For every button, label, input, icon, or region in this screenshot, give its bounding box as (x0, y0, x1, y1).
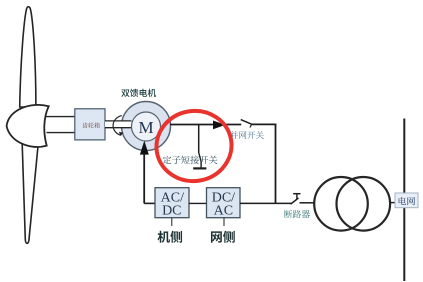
main shaft (hub to gearbox) (46, 117, 75, 133)
machine-side converter AC/DC box (155, 188, 189, 219)
label 断路器 (circuit breaker) (284, 210, 310, 218)
wind turbine lower blade (22, 144, 38, 243)
stator wire (M to grid switch) (170, 124, 241, 126)
generator M inner circle (132, 112, 161, 141)
grid-side converter DC/AC box (207, 188, 241, 219)
svg-text:M: M (138, 118, 153, 137)
stator short-circuit switch bottom bar (193, 167, 206, 169)
rotor wire horizontal to AC/DC (144, 202, 155, 204)
label 并网开关 (230, 131, 264, 139)
label 网侧 (grid side) (211, 231, 235, 243)
svg-text:AC: AC (214, 204, 233, 219)
wire corner drop to converter output node (275, 124, 277, 204)
leader line below DC/AC (223, 218, 225, 226)
generator M outer circle (122, 102, 171, 151)
gearbox box (75, 109, 105, 140)
wind turbine upper blade (20, 7, 36, 107)
wire from grid switch to corner (252, 123, 277, 125)
node: stator junction T (198, 125, 200, 153)
circuit breaker symbol (291, 194, 301, 205)
high-speed shaft (gearbox to generator, over circle) (105, 121, 132, 128)
leader line below AC/DC (171, 218, 173, 226)
wire transformer to grid bus (390, 202, 399, 204)
DC/AC output wire to node (240, 202, 291, 204)
svg-text:DC: DC (162, 204, 181, 219)
stator short-circuit switch blade (199, 153, 201, 169)
power-flow arrow on stator wire (213, 121, 225, 130)
generator letter M (138, 118, 153, 137)
transformer primary winding circle (314, 177, 368, 231)
DC link wire (189, 202, 207, 204)
grid-connection switch blade (并网开关) (241, 120, 252, 128)
label 定子短接开关 (163, 156, 218, 165)
transformer secondary winding circle (337, 177, 391, 231)
gearbox label 齿轮箱 (82, 122, 99, 128)
wind turbine hub (7, 105, 49, 147)
label 双馈电机 (doubly-fed machine) (121, 89, 156, 97)
grid label box middle 电网 (395, 193, 418, 208)
wire breaker to transformer (300, 202, 315, 204)
grid bus vertical line (403, 119, 405, 282)
label 机侧 (machine side) (158, 231, 182, 243)
red emphasis ellipse (151, 105, 237, 187)
rotation direction arc (113, 116, 123, 137)
rotor wire vertical (143, 154, 145, 204)
rotor wire arrow into M (140, 141, 149, 155)
